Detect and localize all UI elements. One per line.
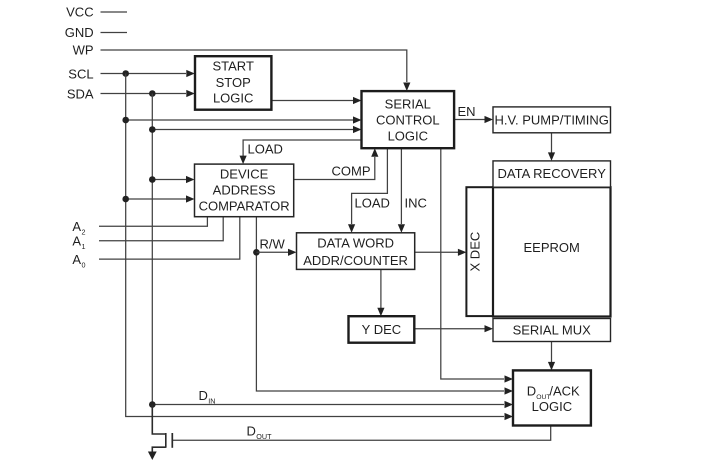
svg-text:A: A bbox=[72, 252, 81, 267]
wire Y DEC to serial mux bbox=[414, 328, 484, 330]
wire GND stub bbox=[101, 32, 128, 34]
wire SCL branch to device address comparator bbox=[126, 198, 186, 200]
junction SDA / serial-control branch bbox=[149, 126, 156, 133]
junction DIN bbox=[149, 401, 156, 408]
svg-text:LOGIC: LOGIC bbox=[388, 128, 428, 143]
svg-text:LOGIC: LOGIC bbox=[213, 91, 253, 106]
wire serial control logic down to Dout/ack logic (top input) bbox=[441, 148, 504, 379]
svg-text:A: A bbox=[72, 219, 81, 234]
svg-text:R/W: R/W bbox=[260, 236, 286, 251]
wire data word addr/counter to X DEC bbox=[415, 251, 458, 253]
svg-text:0: 0 bbox=[82, 260, 86, 269]
svg-text:2: 2 bbox=[82, 228, 86, 237]
svg-text:H.V. PUMP/TIMING: H.V. PUMP/TIMING bbox=[495, 112, 609, 127]
svg-text:D: D bbox=[199, 388, 208, 403]
junction SDA dot bbox=[149, 90, 156, 97]
svg-text:ADDRESS: ADDRESS bbox=[213, 183, 276, 198]
wire SCL to start stop logic bbox=[101, 73, 187, 75]
svg-text:ADDR/COUNTER: ADDR/COUNTER bbox=[303, 253, 408, 268]
svg-text:SERIAL MUX: SERIAL MUX bbox=[513, 322, 592, 337]
wire WP to serial control logic top bbox=[101, 50, 407, 82]
block HV PUMP/TIMING bbox=[493, 107, 611, 133]
block DATA RECOVERY bbox=[493, 161, 611, 187]
wire HV pump to data recovery bbox=[551, 133, 553, 153]
wire COMP from comparator to serial control logic bottom bbox=[294, 157, 375, 180]
wire INC from serial control logic to data word addr/counter bbox=[400, 148, 402, 224]
wire R/W from comparator down to Dout/ack logic (second input) bbox=[256, 217, 504, 391]
junction SDA / comparator branch bbox=[149, 176, 156, 183]
svg-text:EEPROM: EEPROM bbox=[524, 240, 580, 255]
block SERIAL CONTROL LOGIC bbox=[362, 91, 455, 148]
svg-text:START: START bbox=[212, 59, 253, 74]
wire VCC stub bbox=[101, 11, 128, 13]
junction SCL / comparator branch bbox=[122, 196, 129, 203]
block DEVICE ADDRESS COMPARATOR bbox=[195, 164, 294, 217]
block START STOP LOGIC bbox=[195, 56, 271, 109]
wire serial mux to Dout/ack logic bbox=[551, 342, 553, 363]
svg-text:STOP: STOP bbox=[216, 75, 251, 90]
svg-text:A: A bbox=[72, 234, 81, 249]
svg-text:LOAD: LOAD bbox=[248, 142, 283, 157]
svg-text:GND: GND bbox=[65, 25, 94, 40]
wire SDA to serial control logic bbox=[152, 129, 353, 131]
svg-text:COMPARATOR: COMPARATOR bbox=[199, 198, 290, 213]
svg-text:WP: WP bbox=[73, 43, 94, 58]
svg-text:X DEC: X DEC bbox=[468, 232, 483, 272]
junction R/W bbox=[253, 249, 260, 256]
transistor Q1 gate bar bbox=[171, 433, 173, 448]
svg-text:DEVICE: DEVICE bbox=[220, 167, 269, 182]
svg-text:D: D bbox=[247, 424, 256, 439]
wire A2 to comparator bbox=[99, 217, 207, 227]
svg-text:VCC: VCC bbox=[66, 5, 93, 20]
wire A0 to comparator bbox=[99, 217, 240, 259]
svg-text:EN: EN bbox=[458, 104, 476, 119]
wire SCL to serial control logic bbox=[126, 119, 353, 121]
wire SDA branch to device address comparator bbox=[152, 179, 186, 181]
wire start stop logic to serial control logic bbox=[271, 100, 353, 102]
block Y DEC bbox=[349, 316, 415, 343]
wire EN from serial control logic to HV pump bbox=[454, 119, 484, 121]
block DATA WORD ADDR/COUNTER bbox=[297, 233, 415, 270]
block X DEC bbox=[466, 187, 493, 316]
junction SCL dot bbox=[122, 70, 129, 77]
wire data word addr/counter to Y DEC bbox=[380, 269, 382, 308]
svg-text:DATA RECOVERY: DATA RECOVERY bbox=[498, 166, 607, 181]
svg-text:/ACK: /ACK bbox=[549, 384, 580, 399]
ground arrow at transistor source bbox=[148, 452, 157, 461]
block SERIAL MUX bbox=[493, 319, 611, 342]
svg-text:D: D bbox=[527, 384, 536, 399]
svg-text:LOAD: LOAD bbox=[355, 196, 390, 211]
svg-text:LOGIC: LOGIC bbox=[532, 399, 572, 414]
block EEPROM bbox=[493, 187, 611, 316]
wire LOAD from serial control logic to data word addr/counter bbox=[352, 148, 388, 224]
block DOUT/ACK LOGIC bbox=[513, 370, 591, 425]
svg-text:INC: INC bbox=[405, 196, 427, 211]
svg-text:DATA WORD: DATA WORD bbox=[317, 235, 394, 250]
junction SCL / serial-control branch bbox=[122, 117, 129, 124]
wire SCL vertical bus down and into Dout/ack logic (bottom input) bbox=[126, 74, 504, 417]
wire LOAD from serial control logic to device address comparator bbox=[243, 140, 361, 156]
svg-text:OUT: OUT bbox=[256, 432, 272, 441]
wire R/W arrow into data word addr/counter bbox=[256, 251, 288, 253]
transistor Q1 output mosfet bbox=[152, 405, 166, 453]
svg-text:Y DEC: Y DEC bbox=[362, 322, 402, 337]
svg-text:COMP: COMP bbox=[332, 164, 371, 179]
wire SDA to start stop logic bbox=[101, 93, 187, 95]
svg-text:SDA: SDA bbox=[67, 86, 94, 101]
wire A1 to comparator bbox=[99, 217, 223, 241]
svg-text:CONTROL: CONTROL bbox=[376, 113, 440, 128]
svg-text:SCL: SCL bbox=[68, 66, 93, 81]
svg-text:SERIAL: SERIAL bbox=[385, 97, 431, 112]
wire SDA vertical bus down to Din node bbox=[151, 94, 153, 435]
wire DOUT from Dout/ack logic bottom to output transistor gate bbox=[173, 426, 551, 441]
svg-text:1: 1 bbox=[82, 242, 86, 251]
wire DIN to Dout/ack logic (third input) bbox=[152, 404, 504, 406]
